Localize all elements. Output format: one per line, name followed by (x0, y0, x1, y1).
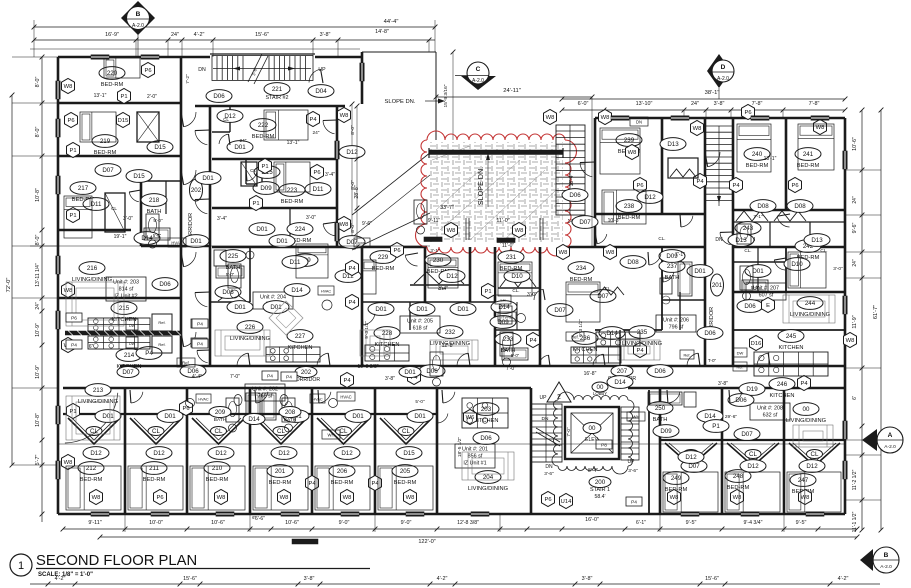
unit box 208 (750, 403, 790, 420)
svg-text:D12: D12 (747, 463, 759, 470)
svg-text:BED-RM: BED-RM (269, 480, 292, 486)
hvac box 6 (177, 358, 195, 367)
svg-text:8'-0": 8'-0" (350, 223, 356, 233)
door tag D06 (697, 327, 723, 340)
door tag D01 (95, 410, 121, 423)
door swing 23 (580, 163, 592, 177)
hex tag P6 (154, 490, 167, 505)
door tag D14 bottom (243, 414, 265, 425)
svg-text:P4: P4 (800, 381, 808, 387)
kitchen counter 4 (571, 347, 621, 363)
door tag D13 (804, 234, 830, 247)
hex tag D15 (117, 113, 130, 128)
hex tag P6 (634, 178, 647, 193)
room tag 242 BED-RM (795, 240, 821, 261)
svg-text:00: 00 (589, 425, 596, 432)
hex tag W8 (544, 110, 557, 125)
sofa furniture 7 (793, 425, 833, 447)
door tag D12 (208, 447, 234, 460)
dimension bottom row widths (61, 514, 860, 532)
door tag D12 (217, 110, 243, 123)
svg-text:6': 6' (852, 396, 858, 400)
hex tag P1 (118, 89, 131, 104)
svg-text:A: A (888, 432, 893, 439)
stair 221 enclosure (210, 54, 315, 81)
svg-text:12'-8 3/8": 12'-8 3/8" (457, 520, 479, 526)
svg-text:P4: P4 (696, 179, 704, 185)
svg-text:202: 202 (191, 187, 202, 194)
svg-text:9'-3 1/2": 9'-3 1/2" (364, 321, 370, 339)
hex tag P4 (369, 476, 382, 491)
stair 200 texts (544, 464, 638, 477)
door tag D07 corridor left (117, 367, 139, 378)
door tag D15 (147, 141, 173, 154)
svg-text:19'-1": 19'-1" (114, 234, 127, 240)
svg-text:3'-8": 3'-8" (714, 101, 725, 107)
door swing 29 (534, 289, 543, 300)
door swing 13 (757, 353, 768, 365)
svg-text:A-2.0: A-2.0 (132, 23, 144, 29)
bath fixtures 5 (740, 266, 753, 290)
wall outer left (57, 57, 60, 514)
bed furniture 19 (253, 466, 308, 510)
svg-text:Ref.: Ref. (684, 354, 691, 358)
svg-text:W8: W8 (601, 115, 610, 121)
door swing 5 (184, 252, 196, 267)
svg-text:10'-9": 10'-9" (35, 365, 41, 379)
svg-text:Unit #: 206: Unit #: 206 (663, 318, 689, 324)
sofa furniture 1 (66, 282, 124, 326)
svg-text:CL: CL (749, 451, 757, 458)
hex tag P4 (307, 112, 320, 127)
hex tag P1 (259, 159, 272, 174)
svg-text:7'-2": 7'-2" (185, 74, 191, 84)
svg-text:W8: W8 (693, 126, 702, 132)
svg-text:D01: D01 (202, 175, 214, 182)
svg-text:BED-RM: BED-RM (746, 163, 769, 169)
roof box hex W8 left (445, 223, 458, 238)
svg-text:7'-8": 7'-8" (809, 101, 820, 107)
svg-text:D01: D01 (404, 369, 416, 376)
door tag D06 (180, 365, 206, 378)
door swing 27 (777, 216, 789, 227)
svg-text:BED-RM: BED-RM (281, 199, 304, 205)
door tag D15 (396, 447, 422, 460)
bath tub 3 (742, 280, 768, 292)
svg-text:D13: D13 (811, 237, 823, 244)
room tag 221 STAIR 2 (264, 83, 290, 101)
corridor 205 label (292, 367, 320, 384)
dimension bottom overall 122'-0" (98, 535, 860, 545)
wall outer top right block (595, 117, 845, 120)
section marker D (707, 54, 734, 99)
wh circles bottom (186, 399, 338, 408)
svg-text:D15: D15 (403, 450, 415, 457)
svg-text:HVAC: HVAC (312, 398, 323, 402)
hex tag P4 (634, 343, 647, 358)
bed furniture 7 (600, 128, 640, 174)
room tag 228 KITCHEN (374, 327, 400, 348)
svg-text:P4: P4 (348, 300, 356, 306)
svg-text:CL: CL (250, 168, 256, 173)
hex tag P6 (180, 401, 193, 416)
svg-text:24": 24" (239, 138, 246, 144)
roof box window bars (424, 218, 543, 243)
svg-text:9'-11": 9'-11" (88, 520, 101, 526)
door tag D12 (439, 270, 465, 283)
svg-text:D: D (721, 64, 726, 71)
svg-text:8'-0": 8'-0" (350, 180, 356, 190)
roof slope dn vertical (476, 153, 490, 207)
hex tag P1 (67, 143, 80, 158)
bath 243 walls (733, 247, 786, 292)
svg-text:D15: D15 (118, 118, 129, 124)
svg-text:D12: D12 (90, 450, 102, 457)
roof diagonals (340, 152, 431, 250)
door swing 6 (195, 293, 207, 307)
bed furniture 21 (378, 466, 433, 510)
svg-text:W8: W8 (546, 115, 555, 121)
door tag D01 (227, 141, 253, 154)
door tag D12 (146, 447, 172, 460)
svg-text:P6: P6 (156, 495, 163, 501)
elevator cloud (552, 392, 634, 474)
svg-text:CL: CL (223, 117, 229, 122)
svg-text:W8: W8 (628, 150, 637, 156)
svg-text:D09: D09 (660, 428, 672, 435)
stair in corridor 201 (706, 126, 732, 243)
svg-text:BED-RM: BED-RM (101, 82, 124, 88)
svg-text:11'-9": 11'-9" (852, 315, 858, 328)
door swing 11 (457, 353, 468, 365)
closet 219 (137, 112, 159, 142)
svg-text:223: 223 (287, 187, 298, 194)
svg-text:W8: W8 (733, 495, 742, 501)
svg-text:218: 218 (149, 197, 160, 204)
lobby tag (592, 382, 608, 396)
svg-text:P1: P1 (261, 164, 268, 170)
bath toilets 209 208 (234, 395, 288, 406)
svg-text:D06: D06 (735, 397, 747, 404)
room tag 00 LIVING/DINING (786, 403, 826, 424)
kitchen counter 3 (365, 345, 409, 361)
kitchen 246 counters (596, 332, 640, 346)
svg-text:D07: D07 (579, 219, 591, 226)
wall right block B (733, 118, 845, 210)
hvac box 1 (168, 238, 186, 247)
door swing 7 (184, 332, 196, 347)
door tag D01 (283, 410, 309, 423)
room tag 246 KITCHEN (769, 378, 795, 399)
bed furniture 8 (602, 190, 646, 224)
hex tag W8 (599, 110, 612, 125)
svg-text:HVAC: HVAC (321, 290, 332, 294)
svg-text:24": 24" (691, 101, 699, 107)
extension line x592 (591, 125, 593, 247)
svg-text:P1: P1 (69, 213, 76, 219)
hex tag W8 (62, 79, 75, 94)
svg-text:24": 24" (35, 302, 41, 310)
svg-text:632 sf: 632 sf (763, 413, 778, 419)
room tag 230 BED-RM (425, 254, 451, 275)
door swing 2 (195, 131, 207, 145)
svg-text:W8: W8 (340, 222, 349, 228)
stair 221 treads (213, 54, 311, 84)
bath fixtures 4 (500, 332, 513, 356)
wall right block closets (733, 222, 845, 247)
wall right block C (595, 247, 845, 514)
svg-text:72'-0": 72'-0" (6, 278, 12, 293)
svg-text:A-2.0: A-2.0 (717, 76, 729, 82)
svg-text:UP: UP (540, 395, 548, 401)
door tag D01 (407, 410, 433, 423)
hex tag W8 (278, 490, 291, 505)
section marker C (455, 62, 496, 90)
svg-text:HVAC: HVAC (171, 241, 182, 246)
room tag 223 BED-RM (279, 184, 305, 205)
door swing 25 (720, 233, 731, 245)
svg-text:D06: D06 (426, 368, 438, 375)
room tag 232 LIVING/DINING (430, 326, 470, 347)
door swing 10 (317, 353, 328, 365)
hex tag P6 (311, 165, 324, 180)
svg-text:24": 24" (852, 259, 858, 267)
door tag D12 (740, 460, 766, 473)
door tag D09 (653, 425, 679, 438)
svg-text:D15: D15 (133, 173, 145, 180)
door tag D01 (687, 265, 713, 278)
door tag D14 (491, 301, 517, 314)
svg-text:796 sf: 796 sf (669, 325, 684, 331)
door swing 38 (597, 234, 607, 244)
svg-text:D14: D14 (291, 287, 303, 294)
svg-text:D09: D09 (497, 319, 509, 326)
hex tag P4 (527, 333, 540, 348)
svg-text:BED-RM: BED-RM (80, 477, 103, 483)
svg-text:D01: D01 (752, 268, 764, 275)
svg-text:607 sf: 607 sf (759, 293, 774, 299)
svg-text:CL: CL (340, 428, 348, 435)
svg-text:206: 206 (337, 468, 348, 475)
svg-text:P4: P4 (631, 500, 637, 506)
svg-text:SECOND FLOOR PLAN: SECOND FLOOR PLAN (36, 553, 197, 569)
closet bifold doors center band (218, 272, 536, 301)
extension line bottom rooms (58, 443, 845, 445)
svg-text:5'-0": 5'-0" (415, 399, 425, 404)
svg-text:D01: D01 (414, 413, 426, 420)
stair 221 DN UP (198, 67, 326, 73)
hvac box 8 (630, 117, 648, 126)
door swing 40 (593, 354, 603, 366)
svg-text:201: 201 (712, 282, 723, 289)
svg-text:W8: W8 (64, 84, 73, 90)
stair 200 treads (531, 395, 562, 462)
small dim texts (89, 93, 843, 422)
hex tag W8 (557, 245, 570, 260)
wall below room 219 (58, 155, 181, 158)
door tag D12 (339, 146, 365, 159)
svg-text:D12: D12 (215, 450, 227, 457)
svg-text:Unit #: 203: Unit #: 203 (113, 280, 139, 286)
door tag D01 corridor (399, 367, 421, 378)
room tag 206 BED-RM (329, 465, 355, 486)
svg-text:7'-0": 7'-0" (506, 366, 516, 372)
svg-text:29'-6": 29'-6" (725, 414, 738, 420)
elevator shaft (565, 407, 619, 459)
svg-text:6": 6" (252, 515, 256, 520)
svg-text:D07: D07 (554, 307, 566, 314)
tag P4 wall a (191, 319, 207, 328)
door swing 24 (708, 152, 720, 167)
wall bottom verticals (125, 388, 784, 514)
hex tag W8 (338, 108, 351, 123)
svg-text:CL.: CL. (512, 288, 519, 293)
hex tag P4 (346, 261, 359, 276)
svg-text:213: 213 (93, 387, 104, 394)
door swing 12 (687, 353, 698, 365)
svg-text:8'-0": 8'-0" (35, 235, 41, 246)
svg-text:CL: CL (811, 451, 819, 458)
bed furniture 15 (788, 252, 826, 288)
svg-text:6'-1": 6'-1" (636, 520, 646, 526)
svg-text:9'-5": 9'-5" (796, 520, 807, 526)
svg-text:D11: D11 (313, 186, 324, 193)
svg-text:IZ Unit #1: IZ Unit #1 (463, 461, 486, 467)
door swing 32 (323, 224, 336, 236)
door swing 36 (663, 272, 674, 282)
svg-text:BED-RM: BED-RM (618, 215, 641, 221)
svg-text:W/D: W/D (358, 241, 366, 246)
svg-text:33'-7": 33'-7" (440, 205, 454, 211)
extension line y49 (30, 48, 360, 50)
left curved wall (65, 393, 118, 443)
room tag 211 BED-RM (141, 462, 167, 483)
bath 237 fixtures (660, 278, 672, 304)
extension line y246 (30, 245, 430, 247)
svg-text:4'-2": 4'-2" (838, 576, 849, 582)
room tag 216 LIVING/DINING (72, 262, 112, 283)
hvac box 4 (566, 332, 584, 341)
svg-text:P6: P6 (393, 248, 400, 254)
svg-text:7'-1": 7'-1" (753, 214, 763, 219)
svg-text:D01: D01 (694, 268, 706, 275)
hex tag W8 (668, 490, 681, 505)
room tag 218 BATH (141, 194, 167, 215)
svg-text:BED-RM: BED-RM (394, 480, 417, 486)
slope dn annotation (385, 99, 445, 106)
door swing 17 (319, 392, 331, 403)
sofa furniture 9 (360, 330, 390, 356)
svg-text:Unit #: 205: Unit #: 205 (407, 319, 433, 325)
hex tag W8 (731, 490, 744, 505)
bath fixtures 3 (414, 200, 427, 224)
room tag 244 LIVING/DINING (790, 297, 830, 318)
svg-text:6'-6": 6'-6" (255, 516, 265, 522)
svg-text:BED-RM: BED-RM (252, 134, 275, 140)
svg-text:HVAC: HVAC (198, 398, 209, 402)
wall below room 216 (58, 297, 181, 300)
svg-text:P4: P4 (343, 378, 351, 384)
room tag 204 LIVING/DINING (468, 471, 508, 492)
tag P4 kitchen (66, 340, 82, 349)
kitchen counter 6 (462, 398, 508, 428)
kitchen right small boxes (680, 348, 747, 371)
bath 250 fixtures (684, 392, 696, 407)
bath 233 walls (495, 302, 540, 330)
wall outer top left block (58, 56, 362, 59)
svg-text:Ref.: Ref. (182, 361, 190, 366)
bed furniture 11 (566, 282, 600, 322)
bath fixtures 2 (228, 264, 241, 288)
svg-text:D12: D12 (278, 450, 290, 457)
hex tag W8 (341, 490, 354, 505)
door tag D01 (263, 301, 289, 314)
svg-text:CL.: CL. (658, 236, 665, 241)
door tag D12 (335, 270, 361, 283)
kitchen dw boxes (126, 319, 138, 348)
door swing 1 (184, 112, 196, 127)
svg-text:814 sf: 814 sf (119, 287, 134, 293)
bath fixtures 8 (430, 352, 443, 376)
svg-text:D08: D08 (627, 259, 639, 266)
svg-text:P4: P4 (732, 183, 740, 189)
svg-text:5'-0": 5'-0" (751, 285, 760, 290)
door swing 21 (405, 255, 417, 266)
door swing 39 (309, 69, 321, 82)
svg-text:DW: DW (129, 342, 136, 346)
svg-text:202: 202 (301, 369, 312, 376)
svg-text:D12: D12 (346, 149, 358, 156)
interior dim column x357 (350, 104, 359, 250)
door tag D01 (745, 265, 771, 278)
hex tag P1 (482, 284, 495, 299)
svg-text:P6: P6 (544, 497, 551, 503)
svg-text:D06: D06 (744, 303, 756, 310)
tag P4 wall b (191, 338, 207, 347)
door swing 28 (681, 216, 693, 227)
svg-text:CL.: CL. (438, 286, 445, 291)
door tag D06 (152, 278, 178, 291)
svg-text:13'-1": 13'-1" (764, 156, 777, 162)
svg-text:E: E (766, 303, 770, 309)
door tag D12 (678, 451, 704, 464)
svg-text:D06: D06 (480, 435, 492, 442)
room tag 208 bath (279, 407, 301, 424)
wall below room 220 (58, 102, 181, 105)
bed furniture 4 (264, 110, 308, 140)
room tag 243 BATH (735, 222, 761, 243)
wall long y247 (212, 246, 845, 249)
wall center closets (362, 285, 540, 302)
svg-text:61'-7": 61'-7" (873, 305, 879, 319)
svg-text:5'-0": 5'-0" (226, 272, 235, 277)
door swing 20 (730, 392, 742, 403)
svg-text:13'-1": 13'-1" (287, 140, 300, 146)
svg-text:247: 247 (798, 477, 809, 484)
door swing 19 (668, 392, 680, 403)
svg-text:D01: D01 (102, 413, 114, 420)
svg-text:D10: D10 (511, 273, 523, 280)
svg-text:P4: P4 (348, 266, 356, 272)
door tag D01 (157, 410, 183, 423)
svg-text:214: 214 (124, 352, 135, 359)
svg-text:216: 216 (87, 265, 98, 272)
hex tag P4 (798, 376, 811, 391)
svg-text:225: 225 (228, 253, 239, 260)
svg-text:DW: DW (129, 324, 136, 328)
door tag D09 (253, 182, 279, 195)
svg-text:9'-0": 9'-0" (339, 520, 350, 526)
